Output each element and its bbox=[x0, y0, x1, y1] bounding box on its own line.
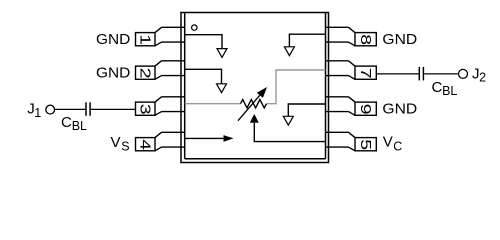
svg-text:S: S bbox=[121, 140, 129, 154]
svg-text:GND: GND bbox=[382, 32, 417, 48]
svg-text:BL: BL bbox=[442, 84, 457, 98]
svg-text:BL: BL bbox=[72, 119, 87, 133]
svg-text:1: 1 bbox=[34, 106, 41, 120]
svg-text:7: 7 bbox=[358, 68, 375, 79]
svg-text:1: 1 bbox=[137, 34, 154, 45]
svg-text:C: C bbox=[432, 79, 443, 96]
svg-text:4: 4 bbox=[137, 139, 154, 150]
svg-text:V: V bbox=[383, 134, 393, 151]
svg-text:3: 3 bbox=[137, 104, 154, 115]
svg-text:GND: GND bbox=[382, 102, 417, 118]
svg-text:8: 8 bbox=[358, 34, 375, 45]
svg-text:V: V bbox=[111, 134, 121, 151]
svg-text:GND: GND bbox=[96, 32, 130, 48]
svg-text:2: 2 bbox=[479, 71, 486, 85]
svg-text:5: 5 bbox=[358, 139, 375, 150]
svg-text:C: C bbox=[61, 114, 72, 131]
svg-text:2: 2 bbox=[137, 68, 154, 79]
svg-text:C: C bbox=[393, 140, 402, 154]
svg-text:GND: GND bbox=[96, 65, 130, 81]
svg-text:6: 6 bbox=[358, 104, 375, 115]
